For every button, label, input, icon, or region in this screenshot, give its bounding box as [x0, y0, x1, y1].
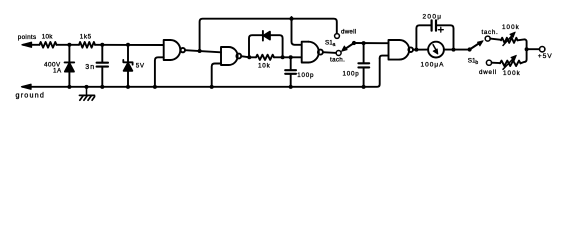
junction: C4 left node: [414, 48, 418, 52]
svg-text:200μ: 200μ: [423, 14, 443, 21]
wire: S1a pole to U1d upper input: [354, 42, 388, 44]
terminal: +5V: [540, 47, 545, 52]
junction: U1a input ground tie: [153, 85, 157, 89]
junction: C2 ground: [289, 85, 293, 89]
junction: C3 top node: [362, 41, 366, 45]
VR2 wiper arrow: [503, 55, 516, 69]
wire: U1b output row to R3: [241, 56, 256, 57]
wire: ground rail: [23, 58, 380, 87]
capacitor C3 100p: [358, 43, 369, 87]
junction: feedback tap node: [198, 49, 202, 53]
wire: diode loop top right and drop to row: [270, 35, 283, 57]
junction: top rail to U1c branch: [290, 17, 294, 21]
wire: VR1 to +5V bus: [518, 39, 527, 63]
junction node A (points/R2/D1): [67, 43, 71, 47]
svg-text:100k: 100k: [503, 70, 521, 77]
ground arrow (input): [22, 84, 32, 89]
wire: top rail branch down to U1c upper input: [292, 17, 302, 45]
terminal: S1a tach contact: [336, 51, 341, 56]
diode D1 400V 1A: [65, 45, 75, 87]
junction: D2 top: [126, 43, 130, 47]
label 400V 1A (D1): [44, 61, 62, 74]
resistor R2 1k5: [79, 42, 95, 48]
meter M1 100uA: [428, 42, 444, 58]
junction: C1 top: [100, 43, 104, 47]
junction: D2 ground: [126, 85, 130, 89]
NAND gate U1c: [302, 42, 323, 63]
svg-text:5V: 5V: [136, 62, 145, 69]
junction: C4 right node: [452, 48, 456, 52]
wire: S1b tach contact to VR1: [490, 39, 501, 40]
svg-text:100p: 100p: [343, 71, 360, 78]
variable resistor VR1 100k: [501, 38, 518, 43]
junction: loop left node: [247, 55, 251, 59]
ground symbol: [80, 87, 95, 100]
svg-text:3n: 3n: [85, 64, 95, 71]
svg-text:+5V: +5V: [538, 53, 553, 60]
svg-text:tach.: tach.: [330, 56, 345, 63]
svg-text:ground: ground: [16, 91, 46, 100]
wire: U1d output to meter: [413, 49, 428, 51]
wire: U1c output to S1a tach contact: [323, 51, 336, 54]
terminal: S1b dwell contact: [486, 60, 491, 65]
junction: D1 ground: [67, 85, 71, 89]
svg-text:b: b: [475, 60, 478, 66]
svg-text:dwell: dwell: [479, 69, 497, 76]
wire: ground rail end up to U1d lower input: [380, 56, 389, 59]
input arrow (points): [22, 42, 32, 47]
switch S1b arm: [470, 41, 484, 50]
wire: feedback riser and top rail to S1a dwell drop: [200, 19, 337, 51]
junction: C1 ground: [100, 85, 104, 89]
wire: diode loop left riser: [249, 35, 263, 57]
wire: +5V tap to terminal: [527, 48, 540, 50]
svg-text:tach.: tach.: [482, 29, 499, 36]
svg-text:1A: 1A: [53, 67, 62, 74]
wire: S1b dwell contact to VR2: [492, 62, 500, 64]
wire: points input row: [23, 44, 164, 46]
wire: meter to S1b pole: [444, 49, 468, 51]
label S1a: [325, 39, 336, 48]
svg-text:10k: 10k: [258, 62, 271, 69]
zener diode D2 5V: [123, 45, 132, 87]
NAND gate U1a: [164, 40, 185, 60]
capacitor C1 3n: [97, 45, 108, 87]
terminal: S1b tach contact: [485, 36, 490, 41]
svg-text:100p: 100p: [297, 72, 314, 79]
wire: R3 to U1c lower input: [274, 56, 302, 58]
svg-text:10k: 10k: [42, 34, 53, 41]
svg-text:100k: 100k: [502, 24, 520, 31]
junction: U1b input ground tie: [210, 85, 214, 89]
NAND gate U1b: [221, 47, 241, 65]
label S1b: [468, 57, 479, 66]
polarity + (C4): [438, 27, 443, 32]
junction: S1a pole pivot: [352, 41, 356, 45]
svg-text:dwell: dwell: [341, 29, 356, 36]
svg-text:a: a: [333, 42, 336, 48]
terminal: S1a dwell contact: [335, 34, 340, 39]
capacitor C2 100p: [285, 57, 296, 87]
junction: S1b pole pivot: [468, 47, 472, 51]
variable resistor VR2 100k: [500, 61, 521, 66]
svg-text:100μA: 100μA: [421, 62, 445, 69]
junction: C2 top node: [289, 55, 293, 59]
switch S1a arm: [341, 43, 354, 51]
capacitor C4 200u loop: [416, 20, 453, 49]
junction: +5V tap: [525, 47, 529, 51]
junction: loop right node: [281, 55, 285, 59]
NAND gate U1d: [389, 40, 414, 60]
wire: U1b lower input to ground rail: [212, 64, 221, 87]
wire: U1a lower input to ground rail: [155, 57, 164, 87]
wire: U1a output to U1b input: [185, 50, 221, 52]
svg-text:points: points: [18, 34, 37, 41]
VR1 wiper arrow: [503, 32, 515, 46]
diode D3 (loop): [263, 31, 270, 41]
junction: ground symbol tap: [85, 85, 89, 89]
junction: C3 ground: [362, 85, 366, 89]
resistor R3 10k: [256, 55, 274, 60]
svg-text:1k5: 1k5: [80, 33, 92, 40]
resistor R1 10k: [40, 42, 57, 48]
